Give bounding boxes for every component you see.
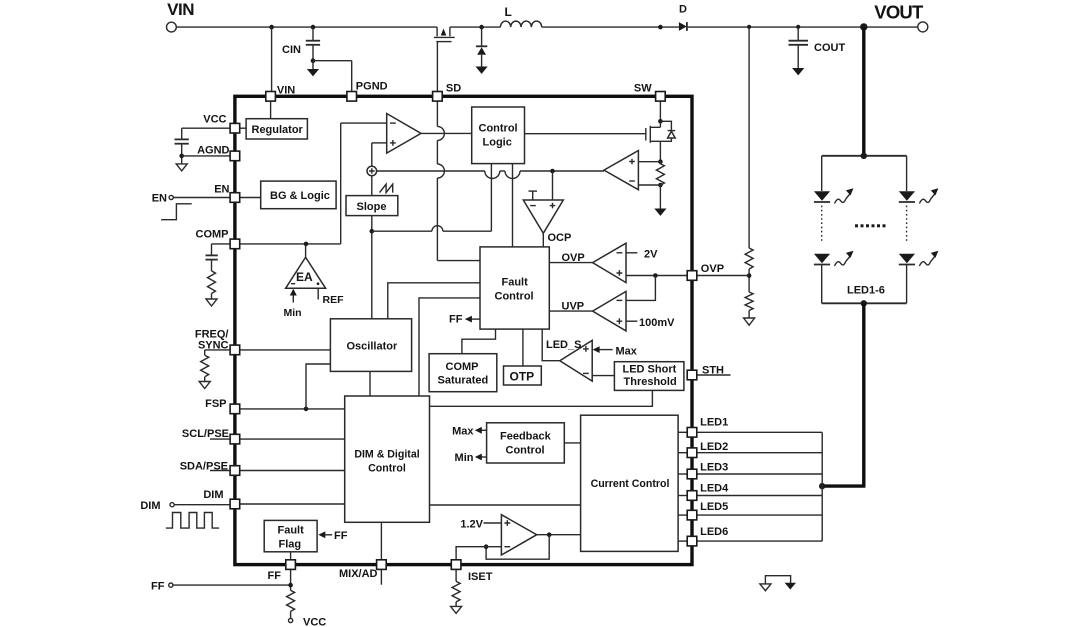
svg-text:COUT: COUT <box>814 42 845 54</box>
svg-text:COMP: COMP <box>446 361 479 373</box>
svg-text:Saturated: Saturated <box>438 375 489 387</box>
svg-text:Slope: Slope <box>357 201 387 213</box>
svg-text:VOUT: VOUT <box>874 2 924 23</box>
svg-text:LED3: LED3 <box>700 462 728 474</box>
svg-text:STH: STH <box>702 365 724 377</box>
svg-text:D: D <box>679 4 687 16</box>
svg-text:PGND: PGND <box>356 81 388 93</box>
svg-text:Regulator: Regulator <box>252 124 304 136</box>
svg-text:OVP: OVP <box>562 252 585 264</box>
svg-text:VIN: VIN <box>277 85 295 97</box>
svg-text:EA: EA <box>296 270 313 284</box>
svg-text:EN: EN <box>214 183 229 195</box>
svg-text:SYNC: SYNC <box>198 339 229 351</box>
svg-text:DIM: DIM <box>203 489 223 501</box>
svg-text:Max: Max <box>616 346 638 358</box>
svg-text:SW: SW <box>634 82 652 94</box>
svg-text:FF: FF <box>449 314 463 326</box>
svg-text:Max: Max <box>452 425 474 437</box>
svg-text:ISET: ISET <box>468 571 493 583</box>
svg-text:LED1: LED1 <box>700 416 728 428</box>
svg-text:VIN: VIN <box>167 0 194 19</box>
svg-text:REF: REF <box>323 294 345 306</box>
svg-text:FF: FF <box>334 530 348 542</box>
svg-text:VCC: VCC <box>203 113 226 125</box>
svg-text:UVP: UVP <box>562 301 585 313</box>
svg-text:Logic: Logic <box>483 137 512 149</box>
svg-text:Control: Control <box>495 291 534 303</box>
svg-text:Control: Control <box>506 445 545 457</box>
svg-text:Min: Min <box>455 452 474 464</box>
svg-text:LED1-6: LED1-6 <box>847 285 885 297</box>
svg-text:OVP: OVP <box>701 263 724 275</box>
svg-text:L: L <box>505 5 512 19</box>
svg-text:Current Control: Current Control <box>591 478 670 490</box>
svg-text:Control: Control <box>479 123 518 135</box>
svg-text:FF: FF <box>151 581 165 593</box>
svg-text:Threshold: Threshold <box>624 376 677 388</box>
svg-text:DIM & Digital: DIM & Digital <box>354 449 419 461</box>
svg-text:2V: 2V <box>644 249 658 261</box>
svg-text:Feedback: Feedback <box>500 431 552 443</box>
svg-text:AGND: AGND <box>197 145 229 157</box>
svg-text:DIM: DIM <box>140 500 160 512</box>
svg-text:VCC: VCC <box>303 617 326 627</box>
svg-text:Oscillator: Oscillator <box>347 341 398 353</box>
svg-text:SDA/PSE: SDA/PSE <box>180 460 228 472</box>
svg-text:LED4: LED4 <box>700 482 729 494</box>
svg-text:Fault: Fault <box>278 525 305 537</box>
svg-text:SCL/PSE: SCL/PSE <box>182 428 229 440</box>
svg-text:LED6: LED6 <box>700 526 728 538</box>
svg-text:LED5: LED5 <box>700 501 728 513</box>
svg-text:FF: FF <box>268 570 282 582</box>
svg-text:1.2V: 1.2V <box>460 518 483 530</box>
svg-text:Min: Min <box>284 307 302 319</box>
svg-text:MIX/AD: MIX/AD <box>339 568 378 580</box>
svg-text:OTP: OTP <box>510 370 535 384</box>
svg-text:CIN: CIN <box>282 44 301 56</box>
svg-text:BG & Logic: BG & Logic <box>270 190 330 202</box>
svg-text:OCP: OCP <box>548 232 572 244</box>
svg-text:Flag: Flag <box>279 539 302 551</box>
svg-text:LED2: LED2 <box>700 441 728 453</box>
svg-text:EN: EN <box>152 193 167 205</box>
svg-text:Fault: Fault <box>502 277 529 289</box>
svg-text:LED Short: LED Short <box>623 364 677 376</box>
svg-text:SD: SD <box>446 82 461 94</box>
svg-text:100mV: 100mV <box>639 317 675 329</box>
svg-text:LED_S: LED_S <box>546 339 581 351</box>
svg-text:COMP: COMP <box>196 229 229 241</box>
svg-text:Control: Control <box>368 463 406 475</box>
svg-text:FSP: FSP <box>205 398 226 410</box>
